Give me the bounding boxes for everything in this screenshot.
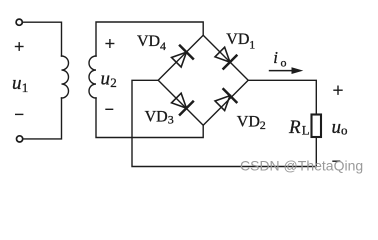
svg-text:o: o (281, 55, 287, 69)
svg-text:o: o (341, 122, 348, 137)
svg-text:i: i (273, 48, 278, 67)
svg-text:VD: VD (226, 31, 249, 48)
minus sign u2 (105, 108, 113, 110)
svg-text:VD: VD (137, 33, 160, 50)
wire primary bottom (23, 98, 62, 139)
svg-text:R: R (288, 117, 301, 138)
svg-text:u: u (101, 69, 111, 90)
resistor RL (312, 115, 322, 138)
svg-text:2: 2 (260, 118, 266, 132)
svg-text:3: 3 (168, 113, 174, 127)
minus sign u1 (15, 113, 23, 115)
wire bridge right node to load (248, 80, 316, 114)
svg-text:VD: VD (145, 109, 168, 126)
current arrow io (269, 67, 304, 74)
diode VD4 (169, 45, 194, 70)
diode VD2 (212, 88, 237, 113)
wire secondary bottom to bridge bottom node (96, 98, 203, 138)
svg-text:u: u (12, 73, 22, 94)
terminal top-left (16, 19, 22, 25)
wire secondary top to bridge top node (96, 22, 203, 56)
svg-text:VD: VD (237, 114, 260, 131)
plus sign u2 (105, 39, 114, 48)
svg-text:2: 2 (110, 75, 117, 90)
svg-text:1: 1 (249, 37, 255, 51)
svg-text:4: 4 (160, 39, 166, 53)
bridge diamond wires (158, 35, 248, 125)
svg-text:1: 1 (22, 80, 29, 95)
svg-text:L: L (302, 123, 310, 138)
secondary winding L2 (89, 56, 96, 98)
svg-text:CSDN @ThetaQing: CSDN @ThetaQing (240, 158, 363, 174)
wire bridge left node to bottom rail (132, 80, 316, 166)
diode VD3 (169, 91, 194, 116)
plus sign uo (333, 86, 342, 95)
svg-text:u: u (332, 117, 342, 138)
wire top-left terminal to primary (22, 22, 61, 56)
terminal bottom-left (17, 136, 23, 142)
plus sign u1 (15, 42, 24, 51)
minus sign uo (332, 160, 340, 162)
diode VD1 (212, 45, 237, 70)
primary winding L1 (62, 56, 69, 98)
